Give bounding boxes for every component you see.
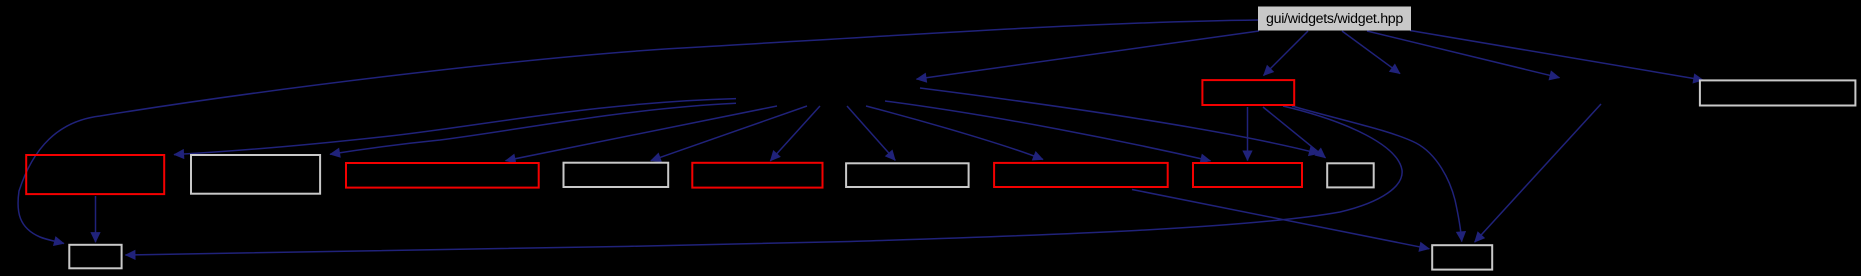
edge: root -> invisible node C bbox=[917, 31, 1260, 79]
node: box9 (white) bbox=[1327, 163, 1374, 187]
node: R1 red box upper bbox=[1202, 80, 1294, 105]
edge: node C -> box3 bbox=[506, 106, 778, 161]
node: W1 right white box bbox=[1700, 80, 1856, 105]
node: box1 (red, two-line) bbox=[26, 155, 164, 194]
node: box3 (red) bbox=[346, 163, 539, 188]
edge: node C -> box9 bbox=[920, 88, 1319, 154]
node: box4 (white) bbox=[564, 163, 669, 187]
edge: node C -> box6 bbox=[847, 106, 895, 160]
svg-text:gui/widgets/widget.hpp: gui/widgets/widget.hpp bbox=[1266, 11, 1403, 27]
edge: node C -> box5 bbox=[770, 106, 820, 161]
edge: node C -> box2 bbox=[330, 103, 736, 154]
edge: node C -> box4 bbox=[651, 106, 807, 161]
edge: R1 -> box9 bbox=[1263, 107, 1326, 158]
edge: box1 -> bottom-left box (vertical) bbox=[95, 196, 97, 242]
node: box6 (white) bbox=[846, 163, 969, 187]
edge: root -> right white box W1 bbox=[1410, 31, 1703, 81]
node: box5 (red) bbox=[692, 163, 822, 188]
node: box7 (red) bbox=[994, 163, 1168, 187]
edge: node E -> bottom-right box bbox=[1475, 104, 1601, 242]
node: bottom-left white box bbox=[69, 245, 121, 268]
node: bottom-right white box bbox=[1432, 245, 1492, 269]
edge: root -> invisible node E bbox=[1367, 31, 1560, 78]
edge: root -> bottom-left box (big arc around left side) bbox=[18, 20, 1258, 244]
edge: R1 -> bottom-right box (sweep) bbox=[1292, 106, 1462, 242]
edge: root -> invisible node D bbox=[1342, 31, 1400, 74]
edge: node C -> box7 bbox=[866, 106, 1043, 160]
node: box8 (red) bbox=[1193, 163, 1302, 187]
edge: node C -> box8 bbox=[885, 101, 1211, 161]
edge: box7 -> bottom-right box bbox=[1132, 190, 1429, 249]
edge: node C -> box1 bbox=[174, 99, 736, 155]
edge: root -> red node R1 bbox=[1264, 31, 1309, 76]
node: root gui/widgets/widget.hpp (grey filled) bbox=[1258, 7, 1411, 31]
edge: R1 -> bottom-left box (long sweep) bbox=[125, 106, 1402, 255]
node: box2 (white, two-line) bbox=[191, 155, 320, 194]
edge: R1 -> box8 (vertical) bbox=[1247, 107, 1249, 161]
